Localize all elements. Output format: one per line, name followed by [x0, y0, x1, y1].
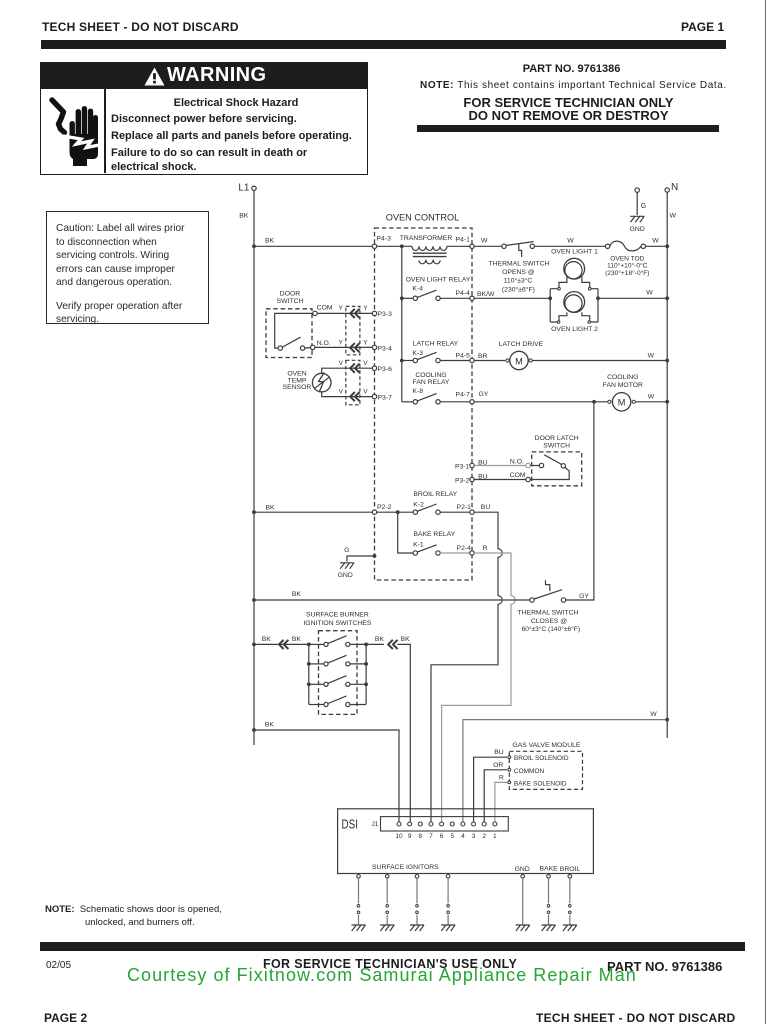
connector P3-4: [372, 345, 392, 352]
connector break BROIL: [569, 905, 572, 914]
warning texts: [106, 97, 366, 109]
label LATCH DRIVE: [499, 341, 544, 348]
svg-text:SWITCH: SWITCH: [277, 298, 304, 305]
svg-text:L1: L1: [238, 183, 250, 194]
svg-text:OVEN LIGHT RELAY: OVEN LIGHT RELAY: [406, 276, 471, 283]
motor cooling fan: [608, 393, 636, 411]
quick-connect ignition feed: [279, 640, 288, 649]
svg-text:OVEN LIGHT 2: OVEN LIGHT 2: [551, 326, 598, 333]
DSI BAKE terminal: [547, 875, 551, 879]
warning box: [40, 62, 368, 175]
quick-connect ignition output: [388, 640, 397, 649]
label Y COM left: [339, 305, 344, 312]
label W on N rail: [670, 213, 677, 220]
svg-text:BK: BK: [265, 238, 275, 245]
svg-text:P4-4: P4-4: [456, 290, 471, 297]
svg-text:THERMAL SWITCH: THERMAL SWITCH: [518, 609, 579, 616]
svg-text:BROIL RELAY: BROIL RELAY: [413, 491, 457, 498]
connector P4-3: [372, 236, 391, 249]
ignition switch row 1: [309, 636, 366, 647]
door switch contacts: [278, 337, 305, 350]
svg-text:R: R: [499, 775, 504, 782]
svg-text:M: M: [618, 398, 626, 408]
svg-text:K-3: K-3: [412, 350, 423, 357]
svg-text:BK: BK: [292, 636, 302, 643]
svg-text:COM: COM: [510, 472, 526, 479]
svg-text:G: G: [344, 547, 349, 554]
svg-text:BAKE: BAKE: [540, 866, 559, 873]
quick-connect pair P3-3: [350, 309, 359, 318]
junction left bus row2: [307, 662, 311, 666]
label DOOR LATCH SWITCH: [535, 435, 579, 450]
connector P4-5: [456, 352, 488, 362]
label R gas valve: [499, 775, 504, 782]
wire sensor top to P3-6: [322, 368, 373, 373]
svg-text:COM: COM: [317, 305, 333, 312]
svg-text:P2-4: P2-4: [457, 545, 472, 552]
svg-text:V: V: [363, 388, 368, 395]
svg-text:GY: GY: [479, 391, 489, 398]
svg-text:GND: GND: [515, 866, 530, 873]
svg-text:GAS VALVE MODULE: GAS VALVE MODULE: [512, 742, 581, 749]
label SURFACE IGNITORS: [372, 864, 439, 871]
svg-text:DSI: DSI: [342, 817, 359, 832]
label THERMAL SWITCH OPENS: [489, 261, 550, 294]
DSI J1 connector: [381, 817, 509, 831]
svg-text:60°±3°C (140°±6°F): 60°±3°C (140°±6°F): [522, 625, 580, 633]
junction P2-2 feed on L1 rail: [252, 510, 256, 514]
svg-text:GY: GY: [579, 593, 589, 600]
svg-text:OVEN LIGHT 1: OVEN LIGHT 1: [551, 249, 598, 256]
svg-text:7: 7: [429, 833, 433, 840]
wire ground stub: [347, 556, 375, 562]
svg-text:K-1: K-1: [413, 542, 424, 549]
wire oven tod to N rail: [646, 238, 668, 247]
junction right bus row1: [364, 643, 368, 647]
svg-text:DOOR: DOOR: [280, 291, 300, 298]
caution box: [46, 211, 209, 324]
label BK thermal row: [292, 591, 302, 598]
label OVEN TOD: [605, 255, 649, 276]
ground GND top-right: [630, 216, 645, 233]
junction bake branch: [396, 510, 400, 514]
shock hand icon: [47, 96, 99, 168]
relay K-4 oven light relay: [400, 276, 471, 300]
svg-text:(230°+18°-0°F): (230°+18°-0°F): [605, 269, 649, 277]
svg-text:N.O.: N.O.: [317, 340, 331, 347]
svg-text:W: W: [648, 353, 655, 360]
svg-text:BK: BK: [375, 636, 385, 643]
wire P4-7 to fan motor: [474, 401, 607, 403]
connector P4-1: [456, 237, 488, 249]
label G oven control: [344, 547, 349, 554]
wire oven control interior rail: [401, 246, 403, 401]
svg-text:G: G: [641, 203, 646, 210]
label W bottom: [650, 711, 657, 718]
junction left bus row3: [307, 682, 311, 686]
svg-text:K-2: K-2: [413, 502, 424, 509]
wire ignition output: [366, 643, 384, 645]
svg-text:COOLING: COOLING: [607, 374, 638, 381]
label Y NO left: [339, 339, 344, 346]
svg-text:BK: BK: [262, 636, 272, 643]
label V P3-7 left: [339, 388, 344, 395]
door latch switch contacts: [530, 455, 569, 480]
wire surface ignitor 4 lead: [447, 878, 449, 924]
wire surface ignitor 1 lead: [358, 878, 360, 924]
ground DSI BROIL: [563, 925, 577, 931]
wire DSI GND lead: [522, 878, 524, 924]
svg-text:W: W: [652, 238, 659, 245]
DSI J1 pin numbers: [395, 833, 497, 840]
junction thermal closes on L1 rail: [252, 598, 256, 602]
label N.O. door latch: [510, 458, 524, 465]
connector P3-2: [455, 473, 488, 484]
label GAS VALVE MODULE: [512, 742, 581, 749]
svg-text:(230°±6°F): (230°±6°F): [502, 285, 535, 293]
label BU gas valve: [494, 749, 504, 756]
svg-text:110°+10°-0°C: 110°+10°-0°C: [607, 262, 647, 270]
label OVEN TEMP SENSOR: [283, 371, 312, 391]
connector break BAKE: [547, 905, 550, 914]
svg-text:BK: BK: [239, 213, 249, 220]
junction lamp bracket left: [548, 296, 552, 300]
motor latch drive: [506, 351, 532, 369]
svg-text:P3-2: P3-2: [455, 477, 470, 484]
svg-text:P4-1: P4-1: [456, 237, 471, 244]
junction GY branch on fan line: [592, 400, 596, 404]
label K-2: [413, 502, 424, 509]
wire COM into door switch: [275, 313, 313, 348]
door latch N.O. terminal: [526, 463, 530, 467]
svg-text:10: 10: [395, 833, 403, 840]
svg-text:LATCH DRIVE: LATCH DRIVE: [499, 341, 544, 348]
label OR gas valve: [493, 762, 503, 769]
svg-text:BK: BK: [401, 636, 411, 643]
wire BU broil route: [431, 512, 502, 822]
thermal switch opens contacts: [502, 242, 535, 257]
wire P3-2 to door latch COM: [474, 479, 526, 481]
svg-text:P4-7: P4-7: [456, 391, 471, 398]
relay K-1 bake: [413, 545, 470, 555]
oven control dashed box: [375, 228, 473, 580]
svg-text:SWITCH: SWITCH: [543, 443, 570, 450]
label DSI: [342, 817, 359, 832]
svg-text:W: W: [646, 290, 653, 297]
top rule bar: [41, 40, 726, 49]
svg-text:Y: Y: [363, 339, 368, 346]
svg-text:N.O.: N.O.: [510, 458, 524, 465]
surface ignitor 3 terminal: [415, 875, 419, 879]
DSI module box: [338, 809, 594, 874]
svg-text:P3-6: P3-6: [378, 366, 393, 373]
label BK on L1 rail: [239, 213, 249, 220]
svg-text:V: V: [363, 360, 368, 367]
bottom rule bar: [40, 942, 745, 951]
svg-text:9: 9: [408, 833, 412, 840]
ground GND oven control: [338, 563, 354, 579]
label BROIL DSI: [560, 866, 581, 873]
door latch switch dashed box: [532, 452, 582, 486]
svg-text:V: V: [339, 388, 344, 395]
svg-text:TRANSFORMER: TRANSFORMER: [400, 235, 453, 242]
wire L1 rail to P2-2: [254, 511, 372, 513]
thermal switch closes contacts: [530, 580, 566, 602]
svg-text:SURFACE BURNER: SURFACE BURNER: [306, 612, 369, 619]
svg-text:P3-7: P3-7: [378, 395, 393, 402]
svg-text:BAKE RELAY: BAKE RELAY: [413, 531, 455, 538]
wire N rail: [666, 192, 668, 738]
connector P3-6: [372, 366, 392, 373]
svg-text:BR: BR: [478, 353, 488, 360]
svg-text:COMMON: COMMON: [514, 768, 545, 775]
door switch N.O. terminal: [305, 340, 331, 349]
junction on L1 rail at top line: [252, 244, 256, 248]
wire thermal closes to fan line: [566, 402, 594, 600]
label Y NO right: [363, 339, 368, 346]
relay K-8 cooling fan relay: [402, 372, 470, 404]
label GND DSI: [515, 866, 530, 873]
svg-text:6: 6: [440, 833, 444, 840]
wire P4-5 to latch motor: [474, 360, 505, 362]
surface ignitor 1 terminal: [357, 875, 361, 879]
svg-text:BU: BU: [481, 504, 491, 511]
svg-text:3: 3: [472, 833, 476, 840]
svg-text:N: N: [671, 182, 678, 193]
svg-text:W: W: [650, 711, 657, 718]
label BAKE DSI: [540, 866, 559, 873]
label SURFACE BURNER IGNITION SWITCHES: [303, 612, 371, 628]
junction ignition left bus top: [307, 643, 311, 647]
svg-text:Y: Y: [339, 305, 344, 312]
label GY thermal: [579, 593, 589, 600]
door latch COM terminal: [526, 477, 530, 481]
label OVEN LIGHT 2: [551, 326, 598, 333]
wire G to ground: [636, 192, 638, 215]
gas valve broil solenoid terminal: [508, 755, 569, 762]
warning header bar: [40, 62, 368, 89]
svg-text:BK: BK: [292, 591, 302, 598]
label BROIL RELAY: [413, 491, 457, 498]
svg-text:K-8: K-8: [412, 388, 423, 395]
svg-text:M: M: [515, 356, 523, 366]
svg-text:BK/W: BK/W: [477, 291, 495, 298]
connector break ignitor 3: [416, 905, 419, 914]
ground surface ignitor 2: [380, 925, 394, 931]
svg-text:OVEN TOD: OVEN TOD: [610, 255, 644, 262]
connector P3-3: [372, 311, 392, 318]
right edge scan artifact: [765, 0, 767, 1024]
svg-text:4: 4: [461, 833, 465, 840]
quick-connect pair P3-6: [350, 364, 359, 373]
surface ignitor 4 terminal: [446, 875, 450, 879]
DSI J1 pins: [397, 822, 497, 826]
svg-text:BAKE SOLENOID: BAKE SOLENOID: [514, 780, 567, 787]
junction oven light line at N rail: [665, 296, 669, 300]
svg-text:W: W: [648, 394, 655, 401]
svg-text:SENSOR: SENSOR: [283, 384, 312, 391]
wire latch motor to N rail: [532, 353, 667, 361]
junction oven control ground on box edge: [373, 554, 377, 558]
DSI GND terminal: [521, 875, 525, 879]
svg-text:P3-3: P3-3: [378, 311, 393, 318]
quick-connect pair P3-4: [350, 343, 359, 352]
junction bottom BK on L1 rail: [252, 728, 256, 732]
svg-text:8: 8: [418, 833, 422, 840]
label THERMAL SWITCH CLOSES: [518, 609, 580, 633]
ignition switch row 3: [309, 676, 366, 687]
svg-text:W: W: [567, 238, 574, 245]
divider between icon cell and text cell: [104, 89, 106, 173]
lamp oven light 1: [559, 258, 590, 287]
svg-text:BROIL: BROIL: [560, 866, 581, 873]
label BK ignition feed left: [262, 636, 272, 643]
svg-text:FAN RELAY: FAN RELAY: [413, 379, 450, 386]
svg-text:THERMAL SWITCH: THERMAL SWITCH: [489, 261, 550, 268]
svg-text:BROIL SOLENOID: BROIL SOLENOID: [514, 755, 569, 762]
svg-text:IGNITION SWITCHES: IGNITION SWITCHES: [303, 620, 371, 627]
junction transformer primary tap: [400, 244, 404, 248]
oven TOD fuse: [605, 241, 645, 251]
svg-text:P2-2: P2-2: [377, 504, 392, 511]
svg-text:GND: GND: [338, 572, 353, 579]
node L1 terminal: [238, 183, 256, 194]
svg-text:R: R: [483, 545, 488, 552]
svg-text:2: 2: [482, 833, 486, 840]
ignition switch row 4: [309, 696, 366, 707]
node G terminal: [635, 188, 646, 210]
svg-text:BK: BK: [265, 721, 275, 728]
label V P3-6 right: [363, 360, 368, 367]
svg-text:LATCH RELAY: LATCH RELAY: [413, 340, 459, 347]
label COOLING FAN MOTOR: [603, 374, 643, 389]
lamp bracket right: [588, 287, 598, 323]
wire N.O. to P3-4: [315, 346, 372, 348]
wire L1 rail to thermal closes: [254, 599, 530, 601]
label J1: [372, 821, 379, 828]
svg-text:DOOR LATCH: DOOR LATCH: [535, 435, 579, 442]
label OVEN LIGHT 1: [551, 249, 598, 256]
connector break ignitor 2: [386, 905, 389, 914]
ground surface ignitor 3: [410, 925, 424, 931]
label COM door latch: [510, 472, 526, 479]
transformer T1 primary coil: [412, 246, 447, 250]
right header block: [420, 63, 723, 75]
wire DSI pin 3 to broil solenoid: [474, 757, 508, 822]
wire R bake route: [442, 553, 516, 822]
label BK top line: [265, 238, 275, 245]
label OVEN CONTROL: [386, 213, 460, 223]
label BK P2-2 row: [265, 505, 275, 512]
wire DSI pin 1 to bake solenoid: [495, 782, 507, 821]
junction oven tod line at N rail: [665, 244, 669, 248]
header: TECH SHEET - DO NOT DISCARD / PAGE 1: [42, 20, 239, 34]
connector break ignitor 4: [447, 905, 450, 914]
svg-text:FAN MOTOR: FAN MOTOR: [603, 382, 643, 389]
relay K-3 latch relay: [400, 340, 470, 362]
wire bake branch down: [398, 512, 413, 553]
quick-connect pair P3-7: [350, 392, 359, 401]
connector break ignitor 1: [357, 905, 360, 914]
svg-text:CLOSES @: CLOSES @: [531, 618, 567, 625]
surface ignitor 2 terminal: [385, 875, 389, 879]
connector housing dashed box lower: [346, 360, 360, 405]
wire COM to P3-3: [317, 312, 372, 314]
wire transformer to P4-1: [447, 245, 470, 247]
svg-text:1: 1: [493, 833, 497, 840]
oven temp sensor: [312, 373, 331, 393]
svg-text:P4-3: P4-3: [377, 236, 392, 243]
DSI BROIL terminal: [568, 875, 572, 879]
footer note: [45, 904, 222, 915]
svg-text:K-4: K-4: [412, 285, 423, 292]
ground surface ignitor 1: [352, 925, 366, 931]
junction right bus row2: [364, 662, 368, 666]
svg-text:SURFACE IGNITORS: SURFACE IGNITORS: [372, 864, 439, 871]
wire P4-4 to lamp bracket: [474, 297, 550, 299]
svg-text:W: W: [481, 238, 488, 245]
svg-text:Y: Y: [363, 305, 368, 312]
junction W line at N rail: [665, 718, 669, 722]
wire DSI pin 2 to common: [484, 770, 507, 822]
wire ignition right bus: [365, 644, 367, 704]
wire lamp bracket to N rail: [598, 290, 667, 299]
svg-text:W: W: [670, 213, 677, 220]
label BK bottom: [265, 721, 275, 728]
junction ignition feed on L1 rail: [252, 643, 256, 647]
lamp oven light 2: [559, 292, 590, 321]
connector P3-7: [372, 394, 392, 401]
wire ignition left bus: [308, 644, 310, 704]
junction lamp bracket right: [596, 296, 600, 300]
svg-text:BU: BU: [494, 749, 504, 756]
wire DSI BROIL lead: [569, 878, 571, 924]
ignition switches dashed box: [319, 631, 358, 715]
label K-1: [413, 542, 424, 549]
wire fan motor to N rail: [635, 394, 667, 402]
connector housing dashed box upper: [346, 306, 360, 354]
wire DSI BAKE lead: [548, 878, 550, 924]
label V P3-7 right: [363, 388, 368, 395]
wire W line to DSI pin 4: [463, 720, 667, 822]
wire rail to ignition quick-connect: [254, 643, 309, 645]
gas valve common terminal: [508, 768, 545, 775]
node N terminal: [665, 182, 678, 193]
wire P2-2 to broil relay: [377, 511, 413, 513]
connector P4-7: [456, 391, 489, 404]
transformer T1 core: [413, 253, 447, 256]
svg-text:5: 5: [450, 833, 454, 840]
wire thermal switch to oven tod: [535, 238, 606, 247]
svg-text:V: V: [339, 360, 344, 367]
door switch COM terminal: [313, 305, 333, 316]
label DOOR SWITCH: [277, 291, 304, 306]
svg-text:P2-1: P2-1: [457, 504, 472, 511]
svg-text:GND: GND: [630, 226, 645, 233]
wire ignition output to DSI pin 9: [398, 644, 411, 821]
ground surface ignitor 4: [441, 925, 455, 931]
svg-text:BK: BK: [265, 505, 275, 512]
wire L1 to P4-3: [254, 245, 372, 247]
svg-text:P3-4: P3-4: [378, 345, 393, 352]
junction fan line at N rail: [665, 400, 669, 404]
label V P3-6 left: [339, 360, 344, 367]
wire surface ignitor 2 lead: [386, 878, 388, 924]
connector P4-4: [456, 290, 495, 300]
svg-text:110°±3°C: 110°±3°C: [504, 277, 533, 285]
label BK ignition out left: [375, 636, 385, 643]
wire P3-1 to door latch N.O.: [474, 465, 526, 467]
